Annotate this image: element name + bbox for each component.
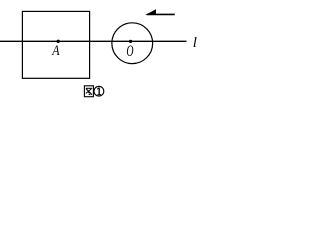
label A [51,42,60,59]
label O [126,41,133,59]
svg-text:l: l [193,35,197,51]
svg-text:O: O [126,41,133,59]
caption ① (drawn glyph) [94,86,104,96]
square loop [22,11,89,78]
velocity arrow [147,13,175,15]
node O [129,40,132,43]
circular loop [112,23,153,64]
wire [0,40,187,42]
caption 图 (drawn glyph) [84,86,93,97]
node A [57,40,60,43]
svg-text:A: A [51,42,60,59]
